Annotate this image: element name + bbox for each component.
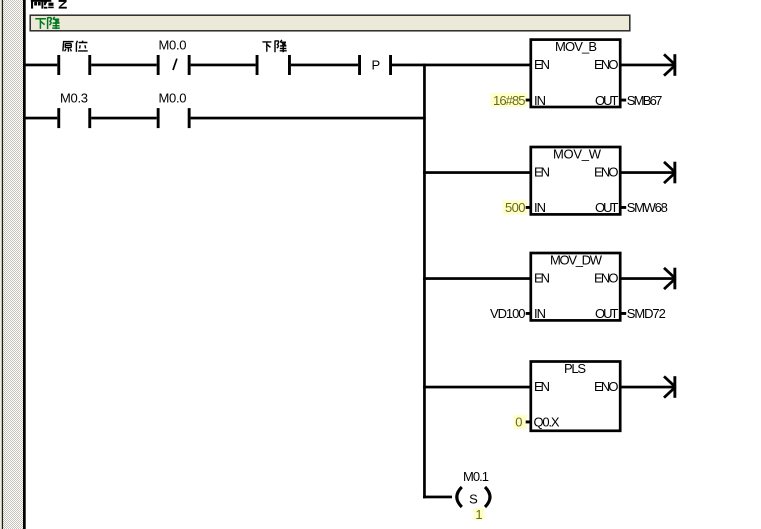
wire rail to contact M0.3 <box>24 117 57 120</box>
contact P (positive edge) <box>358 55 361 75</box>
svg-text:Q0.X: Q0.X <box>534 415 560 430</box>
value 16#85 highlight <box>491 93 528 107</box>
wire M0.0 to junction <box>191 117 426 120</box>
svg-text:OUT: OUT <box>595 306 619 321</box>
contact 下降 (NO) <box>256 55 259 75</box>
comment text 下降 (green) <box>35 17 60 29</box>
svg-text:500: 500 <box>505 200 526 215</box>
ENO wire <box>620 64 675 67</box>
svg-text:M0.0: M0.0 <box>159 37 187 52</box>
branch wire to MOV_W EN <box>423 171 530 174</box>
label 原位 <box>63 41 88 52</box>
svg-text:ENO: ENO <box>594 57 619 72</box>
IN stub <box>526 312 531 315</box>
svg-text:ENO: ENO <box>594 270 619 285</box>
box MOV_DW <box>531 253 620 320</box>
continuation arrow <box>664 162 675 183</box>
OUT stub <box>620 312 626 315</box>
box MOV_B <box>531 40 620 107</box>
wire P to MOV_B EN <box>392 64 530 67</box>
NC slash <box>173 59 177 70</box>
continuation arrow <box>664 268 675 289</box>
coil left paren <box>457 487 462 507</box>
box PLS <box>531 362 620 431</box>
svg-text:16#85: 16#85 <box>493 93 526 108</box>
continuation arrow <box>664 54 675 75</box>
OUT stub <box>620 99 626 102</box>
svg-text:SMD72: SMD72 <box>627 306 666 321</box>
wire contact3 to contact P <box>291 64 358 67</box>
ENO wire <box>620 277 675 280</box>
svg-text:OUT: OUT <box>595 200 619 215</box>
svg-text:VD100: VD100 <box>490 306 526 321</box>
contact M0.3 (NO) <box>57 108 60 128</box>
svg-text:M0.0: M0.0 <box>159 90 187 105</box>
contact 原位 (NO) <box>57 55 60 75</box>
value 0 highlight <box>514 415 528 429</box>
wire contact2 to contact3 <box>191 64 256 67</box>
network comment box <box>30 15 630 31</box>
IN stub <box>526 99 531 102</box>
label 下降 <box>262 40 286 52</box>
gutter left border line <box>2 0 3 529</box>
svg-text:IN: IN <box>534 93 546 108</box>
wire M0.3 to M0.0 <box>91 117 157 120</box>
box MOV_W <box>531 147 620 214</box>
svg-text:EN: EN <box>534 379 550 394</box>
OUT stub <box>620 206 626 209</box>
svg-text:EN: EN <box>534 57 550 72</box>
branch wire to S coil <box>423 496 452 499</box>
branch wire to MOV_DW EN <box>423 277 530 280</box>
coil right paren <box>485 487 490 507</box>
junction vertical branch line <box>423 64 426 499</box>
N value highlight <box>474 508 485 520</box>
ENO wire <box>620 171 675 174</box>
branch wire to PLS EN <box>423 386 530 389</box>
svg-text:OUT: OUT <box>595 93 619 108</box>
svg-text:0: 0 <box>515 415 522 430</box>
gutter hatched margin <box>3 0 23 529</box>
contact M0.0 (NC) <box>157 55 160 75</box>
Q0.X stub <box>526 421 531 424</box>
svg-text:SMW68: SMW68 <box>627 200 668 215</box>
value 500 highlight <box>503 200 528 214</box>
left power rail <box>23 0 26 529</box>
continuation arrow <box>664 376 675 397</box>
svg-text:SMB67: SMB67 <box>627 93 663 108</box>
svg-text:ENO: ENO <box>594 379 619 394</box>
svg-text:IN: IN <box>534 306 546 321</box>
wire rail to contact 原位 <box>24 64 57 67</box>
svg-text:EN: EN <box>534 270 550 285</box>
svg-text:MOV_DW: MOV_DW <box>550 252 603 267</box>
svg-text:EN: EN <box>534 164 550 179</box>
contact M0.0 rung2 (NO) <box>157 108 160 128</box>
svg-text:MOV_W: MOV_W <box>553 146 602 161</box>
ENO wire <box>620 386 675 389</box>
svg-text:M0.1: M0.1 <box>463 469 489 484</box>
network title "网络 2" (top-clipped bold) <box>31 0 67 9</box>
wire contact1 to contact2 <box>91 64 157 67</box>
svg-text:S: S <box>469 492 478 507</box>
svg-text:MOV_B: MOV_B <box>555 39 597 54</box>
svg-text:1: 1 <box>475 507 482 522</box>
left edge beige strip <box>0 0 2 529</box>
svg-text:ENO: ENO <box>594 164 619 179</box>
svg-text:PLS: PLS <box>564 361 586 376</box>
svg-text:P: P <box>372 57 381 72</box>
IN stub <box>526 206 531 209</box>
svg-text:IN: IN <box>534 200 546 215</box>
svg-text:M0.3: M0.3 <box>60 90 88 105</box>
